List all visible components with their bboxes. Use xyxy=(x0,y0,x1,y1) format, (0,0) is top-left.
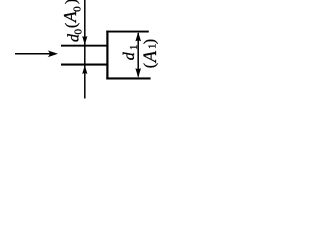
background xyxy=(0,0,158,101)
node arrowhead-up at small pipe bottom wall xyxy=(82,65,87,74)
big pipe bottom wall xyxy=(106,77,150,79)
node arrowhead-down at small pipe top wall xyxy=(82,36,87,45)
wire : d0 dimension extension line xyxy=(84,0,86,99)
big pipe left wall xyxy=(106,31,108,80)
flow arrow xyxy=(15,50,58,57)
big pipe top wall xyxy=(106,31,149,33)
node arrowhead-up at big pipe top wall xyxy=(135,32,141,41)
node arrowhead-down at big pipe bottom wall xyxy=(135,68,141,77)
wire : d1 dimension line xyxy=(137,33,139,77)
svg-text:(A1): (A1) xyxy=(141,38,158,68)
small pipe top wall xyxy=(61,45,109,47)
small pipe bottom wall xyxy=(61,64,109,66)
